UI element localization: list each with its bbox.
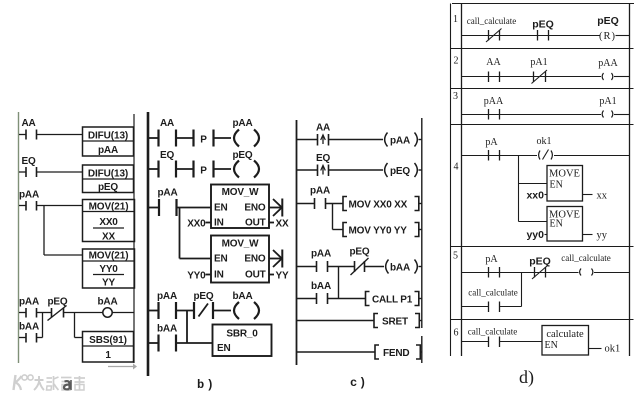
- contact AA (panel b): [159, 118, 177, 147]
- svg-text:FEND: FEND: [383, 348, 409, 359]
- contact pAA (panel c rung4): [311, 249, 331, 273]
- watermark glyph 2: [47, 376, 59, 390]
- svg-text:EQ: EQ: [160, 150, 174, 161]
- svg-text:SRET: SRET: [382, 317, 408, 328]
- wire b rung2 left: [148, 168, 159, 170]
- coil pAA (net2): [598, 58, 618, 80]
- right power rail upper (panel c): [421, 118, 423, 328]
- svg-text:DIFU(13): DIFU(13): [88, 131, 128, 142]
- bracket instruction SRET: [374, 314, 422, 328]
- svg-text:call_calculate: call_calculate: [561, 253, 610, 263]
- svg-text:pEQ: pEQ: [48, 297, 68, 308]
- svg-text:MOV(21): MOV(21): [89, 251, 129, 262]
- bracket instruction FEND: [375, 345, 422, 359]
- svg-text:XX: XX: [276, 219, 289, 230]
- svg-text:P: P: [200, 135, 207, 146]
- reset coil pEQ (R) (net1): [597, 15, 619, 42]
- wire rung4 to coil: [64, 312, 103, 314]
- svg-text:AA: AA: [316, 123, 330, 134]
- watermark glyph 1: [34, 376, 44, 390]
- output ok1 (net6): [589, 344, 621, 355]
- top border (panel d): [452, 3, 634, 5]
- svg-text:1: 1: [453, 14, 458, 25]
- svg-text:XX: XX: [102, 232, 115, 243]
- wire b rung1 mid: [176, 137, 194, 139]
- bracket instruction MOV XX0 XX: [343, 197, 422, 211]
- svg-text:call_calculate: call_calculate: [468, 288, 517, 298]
- svg-text:pEQ: pEQ: [98, 182, 118, 193]
- left power rail (panel a): [18, 112, 20, 363]
- contact pAA (panel c rung3): [310, 186, 330, 210]
- contact pEQ (net1): [532, 19, 554, 41]
- wire b rung4 to coil: [213, 310, 231, 312]
- svg-text:2: 2: [454, 56, 459, 67]
- output yy (net4): [583, 230, 608, 241]
- svg-text:pEQ: pEQ: [390, 166, 410, 177]
- svg-text:call_calculate: call_calculate: [467, 16, 516, 26]
- svg-text:DIFU(13): DIFU(13): [88, 169, 128, 180]
- watermark glyph 4: [74, 376, 85, 390]
- svg-text:MOV_W: MOV_W: [222, 239, 260, 250]
- operand yy0 (net4): [526, 229, 547, 241]
- svg-text:EN: EN: [550, 219, 563, 230]
- NC coil ok1 (net4): [537, 136, 553, 160]
- wire c rung3 to bracket: [326, 203, 344, 205]
- wire c rung4 left: [297, 266, 317, 268]
- bracket instruction MOV YY0 YY: [343, 223, 422, 237]
- svg-text:P: P: [200, 166, 207, 177]
- branch riser (panel c rung3): [332, 204, 334, 230]
- bracket instruction CALL P1: [366, 292, 422, 306]
- wire c rung7 (FEND): [297, 351, 376, 353]
- svg-text:pEQ: pEQ: [532, 19, 554, 31]
- svg-text:EN: EN: [217, 343, 231, 354]
- NC contact pEQ (panel a): [48, 297, 68, 321]
- svg-text:MOV(21): MOV(21): [89, 202, 129, 213]
- svg-text:4: 4: [454, 162, 459, 173]
- svg-text:pEQ: pEQ: [350, 247, 370, 258]
- svg-text:YY0: YY0: [99, 264, 118, 275]
- svg-text:6: 6: [454, 328, 459, 339]
- function box calculate (net6): [542, 326, 589, 356]
- wire b rung1 left: [148, 137, 159, 139]
- svg-text:pAA: pAA: [19, 297, 39, 308]
- svg-text:pAA: pAA: [19, 190, 39, 201]
- svg-text:EN: EN: [214, 203, 228, 214]
- coil pEQ (panel b): [233, 150, 259, 178]
- svg-text:YY0: YY0: [187, 271, 206, 282]
- wire b rung2 mid: [176, 168, 194, 170]
- operand XX output: [269, 219, 289, 230]
- network separator 2-3: [451, 88, 634, 90]
- wire rung3 to box: [37, 205, 83, 207]
- wire c rung3 left: [297, 203, 315, 205]
- svg-text:AA: AA: [160, 118, 174, 129]
- branch riser (panel b rung3): [179, 208, 181, 259]
- wire c rung4 mid: [328, 266, 355, 268]
- svg-text:MOV YY0 YY: MOV YY0 YY: [349, 226, 408, 237]
- rising edge contact AA (panel c): [316, 123, 330, 146]
- wire c rung4 to coil: [365, 266, 385, 268]
- function box MOV_W 2: [211, 236, 269, 283]
- contact pAA (panel a rung3): [19, 190, 39, 211]
- contact call_calculate (net6): [468, 327, 517, 348]
- rising edge contact EQ (panel c): [316, 153, 330, 176]
- output xx (net4): [583, 191, 608, 202]
- svg-text:IN: IN: [214, 218, 224, 229]
- svg-text:bAA: bAA: [233, 291, 253, 302]
- wire bAA to junction: [37, 337, 43, 339]
- coil call_calculate (net5): [561, 253, 610, 276]
- wire c rung2 left: [297, 169, 318, 171]
- branch riser to SBS (panel a): [74, 313, 76, 338]
- watermark logo: [14, 375, 34, 390]
- svg-text:pAA: pAA: [311, 249, 331, 260]
- contact bAA (panel c): [311, 281, 331, 304]
- branch wire to riser: [500, 306, 522, 308]
- wire b rung1 to coil: [214, 137, 232, 139]
- svg-text:pAA: pAA: [98, 145, 118, 156]
- svg-text:MOVE: MOVE: [549, 169, 580, 180]
- covered label a (dark): [64, 380, 71, 390]
- svg-text:(R): (R): [599, 31, 616, 42]
- svg-text:EQ: EQ: [316, 153, 330, 164]
- wire c rung1 to coil: [329, 139, 384, 141]
- branch riser (net5): [521, 273, 523, 307]
- wire rung4 segment: [37, 312, 52, 314]
- net1 rung wire: [462, 35, 601, 37]
- wire branch to MOV2: [44, 254, 83, 256]
- contact EQ (panel a): [21, 156, 36, 177]
- svg-text:SBR_0: SBR_0: [226, 329, 258, 340]
- svg-text:): ): [207, 378, 214, 392]
- contact pAA (panel b rung4): [157, 291, 177, 319]
- branch riser (panel c rung4): [338, 267, 340, 299]
- coil pAA (panel b): [233, 118, 259, 147]
- network separator 4-5: [451, 246, 634, 248]
- svg-text:ENO: ENO: [244, 254, 265, 265]
- net3 rung wire: [462, 114, 602, 116]
- faint remnant wire (bottom of panel a): [108, 364, 137, 370]
- svg-text:bAA: bAA: [19, 322, 39, 333]
- wire b rung2 to coil: [214, 168, 232, 170]
- EN wire MOVE1: [519, 183, 548, 185]
- svg-text:IN: IN: [214, 270, 224, 281]
- svg-text:call_calculate: call_calculate: [468, 327, 517, 337]
- branch riser (net4): [518, 156, 520, 222]
- network number column border: [450, 4, 452, 357]
- wire rung2 left: [19, 171, 26, 173]
- wire bAA to SBR box: [176, 342, 213, 344]
- svg-text:pAA: pAA: [390, 136, 410, 147]
- svg-text:xx: xx: [597, 191, 608, 202]
- coil pAA (panel c): [385, 133, 422, 147]
- svg-text:CALL P1: CALL P1: [372, 295, 413, 306]
- svg-text:xx0: xx0: [526, 190, 544, 202]
- branch wire (net5): [462, 306, 489, 308]
- svg-text:bAA: bAA: [98, 297, 118, 308]
- wire b rung4 mid: [176, 310, 194, 312]
- svg-text:pEQ: pEQ: [597, 15, 619, 27]
- operand xx0 (net4): [526, 190, 547, 202]
- branch riser (panel b rung4): [186, 311, 188, 344]
- svg-text:EN: EN: [550, 180, 563, 191]
- contact pAA (panel b rung3): [158, 188, 178, 217]
- svg-text:yy0: yy0: [526, 229, 544, 241]
- wire b rung4 left: [148, 310, 159, 312]
- NC contact pEQ (net5): [529, 256, 551, 280]
- svg-text:pEQ: pEQ: [529, 256, 551, 268]
- contact AA (net2): [486, 57, 501, 82]
- svg-text:OUT: OUT: [245, 218, 266, 229]
- wire bAA branch left (panel b): [148, 342, 159, 344]
- left power rail (panel d): [461, 4, 463, 357]
- wire rung1 left: [19, 134, 26, 136]
- right power rail (panel a): [133, 114, 135, 363]
- pulse contact P (panel b rung1): [194, 130, 214, 147]
- NC contact pEQ (panel c): [350, 247, 370, 276]
- operand YY0 input: [187, 271, 211, 282]
- svg-text:MOV XX0 XX: MOV XX0 XX: [349, 200, 408, 211]
- NC contact pA1 (net2): [530, 57, 547, 84]
- contact EQ (panel b): [159, 150, 177, 178]
- instruction box DIFU(13) pAA: [83, 127, 134, 156]
- svg-text:OUT: OUT: [245, 270, 266, 281]
- svg-text:pEQ: pEQ: [194, 291, 214, 302]
- svg-text:AA: AA: [21, 118, 35, 129]
- svg-text:pAA: pAA: [158, 188, 178, 199]
- instruction box DIFU(13) pEQ: [83, 165, 134, 193]
- network separator 5-6: [451, 319, 634, 321]
- svg-text:): ): [359, 376, 366, 390]
- svg-text:ok1: ok1: [537, 136, 552, 147]
- parallel branch riser left (panel a): [42, 313, 44, 338]
- wire rung3 left: [19, 205, 26, 207]
- coil bAA (panel a): [98, 297, 118, 318]
- svg-text:bAA: bAA: [390, 263, 410, 274]
- wire rung2 to box: [37, 171, 83, 173]
- svg-text:MOV_W: MOV_W: [222, 187, 260, 198]
- contact pA (net4): [485, 137, 499, 161]
- function box SBR_0: [213, 325, 272, 357]
- wire bAA branch left: [19, 337, 26, 339]
- svg-text:XX0: XX0: [99, 217, 118, 228]
- contact bAA (panel a): [19, 322, 39, 343]
- coil pA1 (net3): [599, 96, 616, 118]
- wire c rung1 left: [297, 139, 318, 141]
- EN wire MOVE2: [519, 221, 548, 223]
- contact call_calculate (net5 branch): [468, 288, 517, 313]
- svg-text:ok1: ok1: [605, 344, 621, 355]
- wire c rung5 to CALL: [328, 298, 366, 300]
- svg-text:pA1: pA1: [599, 96, 616, 107]
- ENO arrow (MOV_W 1): [269, 199, 282, 217]
- svg-text:pA: pA: [485, 137, 498, 148]
- svg-text:XX0: XX0: [187, 219, 206, 230]
- svg-text:bAA: bAA: [311, 281, 331, 292]
- coil pEQ (panel c): [385, 163, 422, 177]
- contact pAA (net3): [484, 96, 504, 120]
- svg-text:SBS(91): SBS(91): [89, 335, 127, 346]
- wire b rung3 to MOV_W1: [177, 207, 212, 209]
- svg-text:pAA: pAA: [233, 118, 253, 129]
- watermark glyph 3: [61, 378, 72, 391]
- svg-text:pAA: pAA: [598, 58, 618, 69]
- net6 rung wire: [462, 341, 489, 343]
- svg-text:calculate: calculate: [546, 329, 584, 340]
- ENO arrow (MOV_W 2): [269, 250, 282, 268]
- svg-text:EN: EN: [545, 340, 558, 351]
- svg-text:pEQ: pEQ: [233, 150, 253, 161]
- pulse contact P (panel b rung2): [194, 161, 214, 178]
- left power rail (panel b): [147, 112, 150, 376]
- wire branch to bracket 2: [333, 229, 344, 231]
- svg-text:bAA: bAA: [157, 324, 177, 335]
- net4 rung wire: [462, 155, 538, 157]
- svg-text:AA: AA: [486, 57, 501, 68]
- svg-text:pA: pA: [485, 254, 498, 265]
- wire c rung5 left: [297, 298, 317, 300]
- svg-text:EN: EN: [214, 254, 228, 265]
- instruction box SBS(91) 1: [83, 332, 134, 363]
- coil bAA (panel c): [386, 260, 422, 274]
- svg-text:YY: YY: [102, 278, 115, 289]
- contact pAA (panel a rung4): [19, 297, 39, 318]
- svg-text:d): d): [519, 367, 534, 388]
- svg-text:ENO: ENO: [244, 203, 265, 214]
- coil bAA (panel b): [233, 291, 259, 319]
- instruction box MOV(21) XX0 XX: [83, 200, 135, 243]
- left power rail (panel c): [296, 120, 298, 365]
- function box MOVE 2: [547, 207, 583, 242]
- svg-text:3: 3: [453, 91, 458, 102]
- svg-text:1: 1: [105, 350, 111, 361]
- network separator 1-2: [451, 48, 634, 50]
- wire to calculate box: [500, 341, 543, 343]
- svg-text:pA1: pA1: [530, 57, 547, 68]
- svg-text:c: c: [350, 376, 357, 390]
- NC contact call_calculate (net1): [467, 16, 516, 42]
- wire coil to rail: [112, 312, 134, 314]
- network separator 3-4: [451, 124, 634, 126]
- wire c rung6 (SRET): [297, 320, 375, 322]
- instruction box MOV(21) YY0 YY: [83, 249, 135, 289]
- svg-text:YY: YY: [276, 271, 289, 282]
- operand YY output: [269, 271, 289, 282]
- wire c rung2 to coil: [329, 169, 384, 171]
- net5 rung wire: [462, 272, 579, 274]
- branch wire down (panel a rung3): [43, 206, 45, 256]
- svg-text:pAA: pAA: [157, 291, 177, 302]
- contact pA (net5): [485, 254, 499, 278]
- net2 rung wire: [462, 76, 602, 78]
- wire b rung3 left: [148, 207, 159, 209]
- function box MOV_W 1: [211, 185, 269, 229]
- svg-text:b: b: [197, 378, 204, 392]
- svg-text:pAA: pAA: [484, 96, 504, 107]
- contact AA (panel a): [21, 118, 36, 140]
- wire branch to MOV_W2: [180, 258, 212, 260]
- svg-text:EQ: EQ: [21, 156, 35, 167]
- svg-text:yy: yy: [597, 230, 608, 241]
- function box MOVE 1: [547, 166, 583, 202]
- wire rung1 to box: [37, 134, 83, 136]
- wire rung4 left: [19, 312, 26, 314]
- wire to SBS box: [75, 337, 83, 339]
- svg-text:5: 5: [453, 251, 458, 262]
- right power rail (panel d): [629, 4, 631, 357]
- svg-text:pAA: pAA: [310, 186, 330, 197]
- NC contact pEQ (panel b): [194, 291, 214, 319]
- operand XX0 input: [187, 219, 211, 230]
- contact bAA (panel b): [157, 324, 177, 352]
- right power rail lower (panel c): [421, 336, 423, 363]
